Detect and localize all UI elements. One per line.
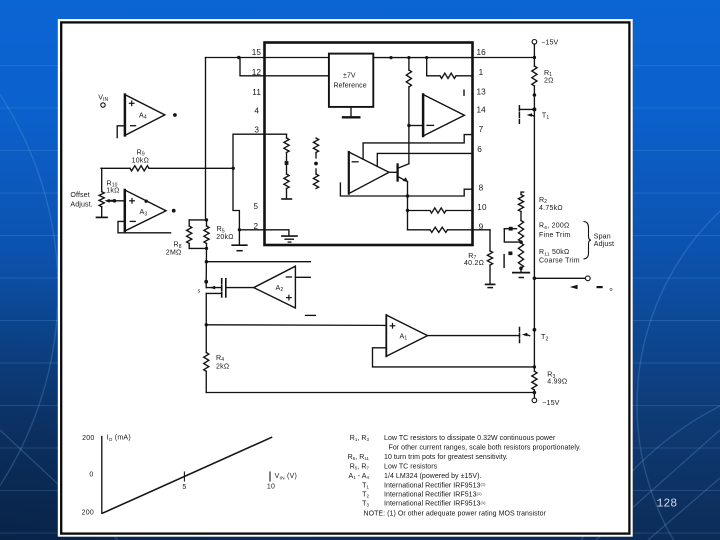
wire pin16 to -15V rail [473, 57, 535, 59]
brace span adjust [584, 222, 591, 259]
resistor internal (pin 1) [427, 58, 473, 79]
resistor R1 [532, 66, 537, 109]
svg-text:10 turn trim pots for greatest: 10 turn trim pots for greatest sensitivi… [384, 454, 508, 461]
wire A2 inverting input stub [295, 276, 310, 278]
panel black border frame [61, 22, 629, 533]
svg-text:Coarse Trim: Coarse Trim [539, 258, 580, 265]
svg-text:Low TC resistors: Low TC resistors [384, 463, 438, 470]
wire T3 source to A1 [206, 324, 386, 327]
svg-text:20kΩ: 20kΩ [216, 234, 234, 241]
resistor internal chain left lower [282, 174, 291, 199]
graph tick 10V [269, 472, 271, 481]
svg-text:5: 5 [254, 202, 259, 211]
wire pin 12 branch [240, 58, 329, 76]
resistor internal chain right upper [313, 138, 318, 158]
svg-text:o: o [610, 287, 613, 293]
node pin16 on rail [533, 56, 536, 59]
terminal -15V bottom [532, 398, 537, 403]
svg-text:40.2Ω: 40.2Ω [464, 260, 484, 267]
node R11 bottom [519, 266, 523, 270]
wire internal top rail [373, 57, 472, 59]
svg-text:6: 6 [477, 145, 482, 154]
node R9 to pin3 wire [232, 167, 235, 170]
potentiometer R6 fine trim [504, 221, 523, 243]
op-amp A4 [125, 95, 165, 136]
node bottom bar [205, 247, 208, 250]
svg-text:12: 12 [252, 68, 262, 77]
node junction pin15/pin12 [237, 56, 240, 59]
svg-text:2kΩ: 2kΩ [216, 364, 229, 371]
svg-text:s: s [198, 289, 201, 295]
svg-text:2MΩ: 2MΩ [166, 250, 182, 257]
wire main right rail [533, 109, 535, 371]
svg-text:14: 14 [477, 105, 487, 114]
label IO dash [597, 286, 603, 288]
node internal rail dots [389, 56, 392, 59]
svg-text:International Rectifier IRF951: International Rectifier IRF9513(1) [384, 500, 486, 508]
ground pin2 stub [232, 245, 247, 251]
ground internal IC [282, 236, 297, 242]
wire R8/R5 top bar [189, 219, 206, 221]
svg-text:1/4 LM324 (powered by ±15V).: 1/4 LM324 (powered by ±15V). [384, 473, 481, 480]
terminal -15V top [532, 40, 537, 45]
svg-text:11: 11 [252, 88, 261, 97]
wire pin 6 [377, 153, 472, 166]
wire A1 feedback [373, 348, 535, 367]
graph tick 5V [183, 472, 185, 481]
node emitter/pin8 junction [406, 194, 409, 197]
arrow output current [570, 285, 578, 290]
svg-text:International Rectifier IRF513: International Rectifier IRF513(1) [384, 491, 482, 499]
wire T3 gate to A2 [226, 287, 254, 289]
svg-text:4.75kΩ: 4.75kΩ [539, 205, 563, 212]
node R1 bottom [533, 93, 537, 97]
node on A3 hypotenuse [145, 200, 148, 203]
svg-text:200: 200 [82, 435, 94, 442]
svg-text:1: 1 [479, 68, 484, 77]
wire wiper to A3 [114, 200, 124, 202]
svg-text:NOTE: (1) Or other adequate po: NOTE: (1) Or other adequate power rating… [364, 511, 547, 518]
wire pin 7 [363, 135, 472, 160]
svg-text:16: 16 [477, 48, 487, 57]
svg-text:7: 7 [479, 125, 484, 134]
svg-text:4.99Ω: 4.99Ω [547, 378, 567, 385]
svg-text:Adjust.: Adjust. [70, 200, 92, 208]
ground chain bottom [513, 268, 529, 277]
wire A3 feedback stub [118, 221, 171, 232]
svg-text:10: 10 [267, 484, 275, 491]
IC block U1 outline [265, 43, 473, 246]
svg-text:−15V: −15V [541, 38, 558, 46]
node internal chain right tap [314, 162, 318, 166]
node A2 sense tap [205, 260, 208, 263]
resistor R9 [101, 166, 233, 171]
node R10 wiper [113, 199, 117, 203]
wire bottom return [206, 392, 534, 394]
wire rail to T3 [205, 248, 207, 281]
transistor T3 [206, 279, 226, 325]
svg-text:4: 4 [254, 106, 259, 115]
node T3 drain [204, 280, 208, 284]
node A4 output dot [173, 113, 177, 117]
potentiometer R10 offset adjust [97, 168, 115, 217]
svg-text:International Rectifier IRF951: International Rectifier IRF9513(1) [384, 482, 486, 490]
white figure panel [58, 19, 633, 537]
wire A1 output to T2 gate [428, 335, 520, 337]
wire emitter down [407, 182, 409, 230]
svg-text:−15V: −15V [542, 399, 559, 407]
wire pin 3 [233, 134, 287, 245]
node A3 output dot [172, 209, 176, 213]
resistor internal (pin 10) [408, 208, 473, 213]
svg-text:10: 10 [477, 203, 487, 212]
resistor R5 [204, 220, 209, 249]
svg-text:A1 - A4: A1 - A4 [349, 473, 370, 480]
graph transfer line [103, 437, 272, 513]
svg-text:2Ω: 2Ω [544, 78, 554, 85]
wire floating dash below A2 [306, 314, 316, 316]
svg-text:1kΩ: 1kΩ [106, 187, 119, 194]
svg-text:Offset: Offset [70, 191, 89, 199]
terminal VIN [101, 103, 105, 107]
ground R7 [486, 284, 495, 287]
svg-text:128: 128 [657, 498, 678, 511]
svg-text:200: 200 [82, 509, 94, 516]
op-amp A3 [125, 190, 166, 231]
svg-text:Adjust: Adjust [594, 240, 614, 248]
potentiometer R11 coarse trim [504, 243, 523, 268]
resistor R7 [487, 230, 492, 284]
svg-text:13: 13 [477, 88, 487, 97]
node pin2 junction [238, 228, 241, 231]
wire big amp inverting input [409, 125, 423, 127]
resistor internal (pin 9) [408, 227, 491, 232]
resistor R2 [518, 192, 523, 220]
wire left rail down from pin15 [205, 58, 207, 221]
node internal chain tap [285, 161, 289, 165]
node R3 bottom [533, 391, 537, 395]
transistor T1 [519, 106, 536, 124]
svg-text:10kΩ: 10kΩ [132, 158, 150, 165]
wire tap toward A2 [206, 261, 310, 263]
terminal output [585, 276, 590, 281]
wire pin 15 rail [206, 57, 329, 59]
wire A4 feedback stub [117, 126, 125, 138]
resistor internal chain left upper [284, 134, 289, 174]
resistor R8 [187, 220, 192, 249]
node output tap [533, 277, 537, 281]
wire R8/R5 bottom bar [189, 247, 206, 249]
svg-text:0: 0 [89, 472, 93, 479]
graph y-axis [101, 437, 103, 514]
svg-text:9: 9 [479, 222, 484, 231]
node inverting input big amp [407, 124, 410, 127]
op-amp internal U3 [349, 152, 389, 194]
resistor R4 [204, 325, 209, 393]
op-amp internal big U2 [423, 90, 464, 136]
svg-text:5: 5 [182, 484, 186, 491]
svg-text:Reference: Reference [334, 83, 367, 90]
svg-text:15: 15 [252, 48, 262, 57]
transistor T2 [520, 328, 537, 343]
node top bar [205, 218, 208, 221]
wire to output terminal [534, 277, 585, 279]
reference box ±7V [329, 54, 373, 107]
svg-text:2: 2 [254, 222, 259, 231]
node pin10 junction [406, 209, 409, 212]
wire top rail segment [533, 44, 535, 66]
svg-text:Low TC resistors to dissipate: Low TC resistors to dissipate 0.32W cont… [384, 435, 556, 442]
resistor R3 [532, 371, 537, 398]
op-amp A2 [254, 266, 296, 308]
svg-text:±7V: ±7V [343, 73, 356, 80]
resistor internal chain right lower [313, 169, 318, 189]
svg-text:For other current ranges, scal: For other current ranges, scale both res… [389, 444, 582, 451]
transistor internal Q1 [389, 164, 409, 182]
ground below reference box [343, 107, 359, 117]
wire pin 8 row [340, 183, 472, 196]
node A1 input tap [205, 323, 208, 326]
svg-text:3: 3 [254, 125, 259, 134]
svg-text:8: 8 [479, 184, 484, 193]
resistor internal (bias) [406, 58, 411, 164]
op-amp A1 [386, 315, 427, 356]
node R6 bottom [519, 240, 523, 244]
wire pin2 internal to ground [265, 230, 289, 236]
svg-text:Fine Trim: Fine Trim [539, 232, 570, 239]
wire pin 2 [239, 229, 264, 231]
node feedback on rail [533, 365, 536, 368]
